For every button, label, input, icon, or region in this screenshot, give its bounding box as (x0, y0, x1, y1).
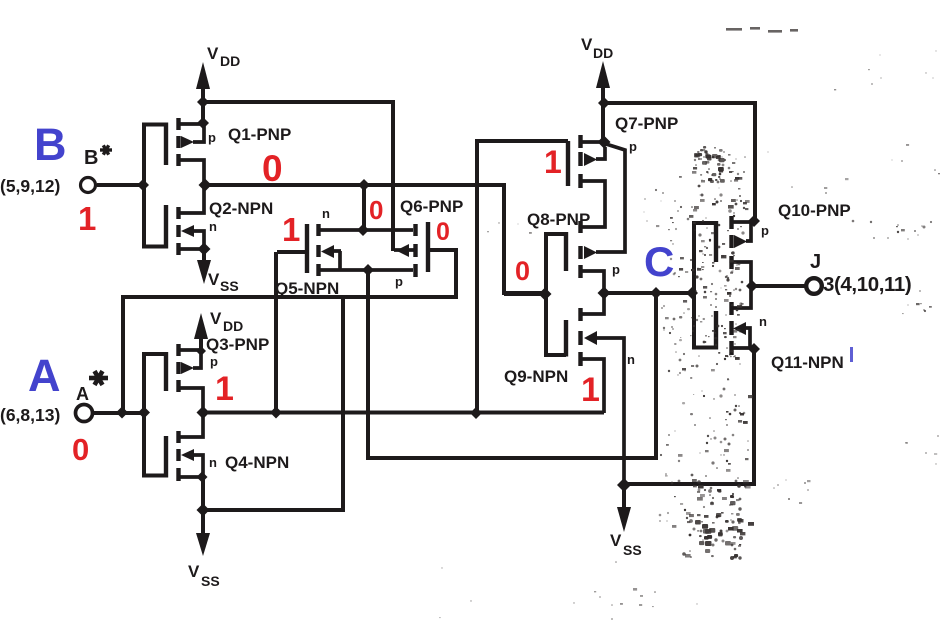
gate bar Q5 (305, 224, 309, 273)
junction dot node A-bar (197, 406, 210, 419)
wire B-bar into Q8/Q9 gates (504, 292, 544, 296)
wire VDD rail to Q10 (605, 103, 755, 221)
transistor Q1 channel (176, 118, 180, 166)
gate bar Q10 (714, 221, 718, 262)
svg-text:J: J (810, 251, 821, 273)
wire node A-bar (204, 411, 604, 415)
transistor Q3 channel (176, 344, 180, 392)
junction dot Q1 source (197, 117, 209, 129)
svg-text:n: n (627, 352, 635, 367)
gate bracket A inverter (144, 354, 166, 476)
junction dot Q7 source (598, 136, 611, 149)
wire B input to gate bracket (97, 183, 143, 187)
gate bar Q1 (164, 123, 168, 166)
svg-text:p: p (395, 274, 403, 289)
junction dot Q2 source (198, 243, 211, 256)
svg-text:Q6-PNP: Q6-PNP (400, 197, 463, 216)
junction dot A to Q6 gate (116, 407, 128, 419)
svg-text:3(4,10,11): 3(4,10,11) (823, 273, 911, 296)
transistor Q9 channel (578, 308, 582, 366)
svg-text:B: B (84, 147, 98, 169)
svg-text:Q3-PNP: Q3-PNP (206, 335, 269, 354)
wire Q5/Q6 shared top lead (320, 228, 413, 232)
svg-text:0: 0 (515, 256, 530, 286)
wire A input to bracket (93, 411, 144, 415)
svg-text:A: A (76, 384, 89, 404)
svg-text:p: p (629, 139, 637, 154)
gate bracket B inverter (144, 125, 166, 247)
terminal circle input A (76, 405, 93, 422)
svg-text:1: 1 (581, 371, 600, 409)
bulk arrow Q10 (p) (734, 235, 747, 248)
junction dot Q11 source (748, 343, 760, 355)
svg-text:Q11-NPN: Q11-NPN (771, 353, 844, 372)
svg-text:V: V (610, 531, 622, 550)
svg-text:Q10-PNP: Q10-PNP (778, 201, 851, 220)
bulk arrow Q3 (p) (181, 362, 194, 374)
transistor Q4 leads (180, 413, 203, 477)
transistor Q2 leads (180, 185, 204, 249)
junction dot Q7 gate on A-bar line (470, 407, 482, 419)
power arrow VDD (right) (596, 61, 610, 88)
gate bar Q7 (566, 141, 570, 186)
svg-text:Q4-NPN: Q4-NPN (225, 453, 289, 472)
gate bar Q9 (564, 320, 568, 357)
wire Q5/Q6 shared bottom lead (320, 268, 413, 272)
junction dot output node (746, 280, 758, 292)
transistor Q1 leads (180, 123, 204, 185)
svg-text:p: p (208, 130, 216, 145)
transistor Q7 channel (578, 135, 582, 188)
gate bar Q6 (426, 222, 430, 272)
transistor Q8 channel (578, 221, 582, 278)
svg-text:DD: DD (223, 318, 243, 334)
svg-text:Q9-NPN: Q9-NPN (504, 367, 568, 386)
gate bar Q8 (564, 232, 568, 271)
power VDD (right) wire (601, 74, 605, 142)
svg-text:0: 0 (369, 195, 383, 225)
bulk arrow Q11 (n) (733, 322, 746, 335)
svg-text:0: 0 (72, 432, 89, 467)
junction dot VDD right rail (598, 97, 610, 109)
bulk arrow Q7 (p) (584, 153, 597, 166)
svg-text:1: 1 (78, 200, 96, 237)
junction dot node C left (598, 287, 611, 300)
gate bar Q3 (164, 352, 168, 391)
svg-text:DD: DD (593, 45, 613, 61)
wire Q5 gate down to A line (274, 252, 278, 412)
scan noise speckles (706, 153, 709, 155)
bulk arrow Q4 (n) (181, 449, 194, 461)
svg-text:V: V (581, 35, 593, 54)
gate bracket Q8/Q9 (546, 234, 566, 355)
junction dot Q10 source (748, 215, 760, 227)
wire Q5/Q6 source down to node C (368, 270, 656, 458)
transistor Q11 leads (733, 286, 753, 348)
wire VDD rail to Q6 bulk (203, 102, 393, 251)
wire Q6 gate to input A (123, 250, 456, 412)
transistor Q2 channel (176, 207, 180, 255)
transistor Q6 channel (413, 224, 417, 277)
junction dot B-bar drop (358, 179, 370, 191)
junction dot Q5 gate on A-bar line (270, 407, 282, 419)
transistor Q5 gate lead (277, 250, 305, 254)
junction dot VSS-A rail (197, 504, 210, 517)
transistor Q10 leads (733, 222, 753, 286)
svg-text:Q1-PNP: Q1-PNP (228, 125, 291, 144)
svg-text:Q8-PNP: Q8-PNP (527, 210, 590, 229)
junction dot node B-bar (199, 179, 212, 192)
transistor Q10 channel (729, 216, 733, 269)
transistor Q11 channel (729, 302, 733, 355)
power VSS (A side) wire (201, 477, 205, 536)
svg-text:Q2-NPN: Q2-NPN (209, 199, 273, 218)
svg-text:V: V (188, 562, 200, 581)
transistor Q4 channel (176, 431, 180, 481)
transistor Q5 channel (316, 224, 320, 276)
junction dot node C right (686, 287, 698, 299)
bulk arrow Q1 (p) (181, 136, 194, 148)
svg-text:SS: SS (201, 573, 220, 589)
junction dot A bracket (138, 407, 150, 419)
svg-text:SS: SS (623, 542, 642, 558)
bulk arrow Q6 (p) (396, 244, 409, 257)
svg-text:p: p (761, 223, 769, 238)
svg-text:SS: SS (220, 278, 239, 294)
terminal circle input B (81, 178, 96, 193)
svg-text:A: A (28, 350, 61, 401)
wire Q7 source to Q8 bulk (596, 144, 625, 252)
transistor Q6 bulk lead (394, 248, 414, 252)
transistor Q8 drain lead (582, 271, 604, 293)
gate bracket Q10/Q11 (694, 223, 716, 348)
power arrow VSS (right) (617, 507, 631, 532)
bulk arrow Q2 (n) (181, 225, 194, 237)
svg-text:Q7-PNP: Q7-PNP (615, 114, 678, 133)
svg-text:1: 1 (282, 211, 300, 248)
svg-text:B: B (34, 119, 67, 170)
terminal circle output J (806, 278, 822, 294)
wire output J (752, 284, 806, 288)
junction dot Q5/Q6 drain lead (357, 224, 369, 236)
junction dot node C mid (650, 287, 662, 299)
svg-text:(6,8,13): (6,8,13) (0, 405, 60, 425)
svg-text:V: V (210, 309, 222, 328)
gate bar Q2 (164, 205, 168, 249)
svg-text:n: n (322, 206, 330, 221)
power VDD (B side) wire (201, 74, 205, 123)
power arrow VDD (B side) (196, 62, 210, 89)
svg-text:0: 0 (436, 218, 450, 246)
gate bar Q11 (714, 311, 718, 350)
power VDD (A side) wire (199, 326, 203, 351)
svg-text:Q5-NPN: Q5-NPN (275, 279, 339, 298)
junction dot Q3 source (196, 346, 206, 356)
svg-text:V: V (208, 270, 220, 289)
wire B-bar down to Q5/Q6 drain lead (362, 185, 366, 230)
power arrow VDD (A side) (194, 313, 208, 339)
bulk arrow Q5 (n) (321, 245, 334, 258)
transistor Q3 leads (180, 350, 203, 412)
junction dot B bracket (137, 179, 149, 191)
svg-text:1: 1 (215, 370, 234, 408)
junction dot Q8/Q9 gate spine (539, 288, 552, 301)
transistor Q9 leads (582, 293, 624, 487)
power arrow VSS (A side) (196, 533, 210, 556)
bulk arrow Q8 (p) (584, 246, 597, 259)
junction dot VSS right (617, 478, 631, 492)
svg-text:p: p (210, 354, 218, 369)
svg-text:n: n (209, 219, 217, 234)
wire A-bar to Q7 gate (477, 141, 568, 412)
svg-text:C: C (644, 238, 674, 285)
wire Q11 source to VSS (626, 350, 754, 484)
power VSS (B side) wire (202, 249, 206, 264)
svg-text:V: V (207, 44, 219, 63)
svg-text:1: 1 (544, 144, 562, 180)
wire node C (604, 291, 693, 295)
svg-text:DD: DD (220, 53, 240, 69)
svg-text:n: n (759, 314, 767, 329)
svg-text:(5,9,12): (5,9,12) (0, 176, 60, 196)
transistor Q5 bulk lead (333, 251, 341, 270)
svg-text:p: p (612, 262, 620, 277)
bulk arrow Q9 (n) (584, 331, 597, 345)
power arrow VSS (B side) (197, 260, 211, 284)
gate bar Q4 (164, 436, 168, 478)
transistor Q7 leads (581, 142, 605, 227)
power VSS (right) wire (622, 485, 626, 510)
wire node B-bar (206, 185, 545, 293)
junction dot VDD-B rail (197, 96, 209, 108)
junction dot Q5/Q6 source lead (362, 264, 374, 276)
junction dot Q4 source (197, 472, 208, 483)
svg-text:0: 0 (262, 148, 283, 189)
wire Q4 source rail (204, 297, 343, 510)
svg-text:n: n (209, 455, 217, 470)
